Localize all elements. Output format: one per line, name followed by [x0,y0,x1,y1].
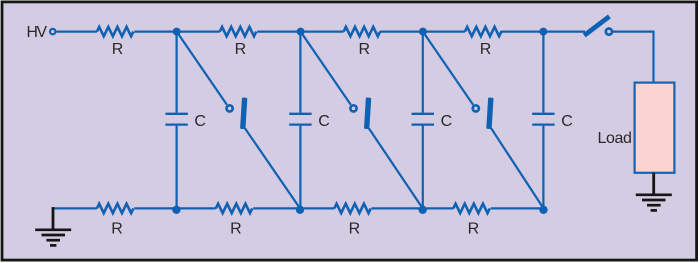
switch S (output) terminal [606,29,612,35]
spark gap 1 electrode bar [240,97,247,129]
spark gap 2 ball terminal [350,105,356,111]
resistor R (bottom stage 2) [216,204,252,213]
resistor R (top stage 4) [465,27,501,36]
wire [177,31,220,33]
node (bottom rail junction) [172,206,180,214]
node (bottom rail junction) [539,206,547,214]
capacitor C (stage 4) [532,114,554,125]
wire [501,31,544,33]
wire (cap branch top, stage 2) [299,32,301,113]
capacitor C (stage 1) [165,114,187,125]
wire [301,31,344,33]
resistor R (top stage 3) [344,27,380,36]
wire [372,207,454,209]
wire (cap branch top, stage 4) [542,32,544,113]
wire [253,207,334,209]
spark gap 3 electrode bar [486,97,493,129]
node (top rail junction) [173,28,181,36]
node (top rail junction) [297,28,305,36]
spark gap 1 lower lead [245,128,300,208]
svg-text:R: R [235,41,246,58]
spark gap 3 upper lead [423,32,473,105]
svg-text:R: R [468,221,479,238]
svg-text:C: C [441,113,453,130]
svg-text:R: R [111,221,122,238]
wire (cap branch top, stage 3) [422,32,424,113]
resistor R (top stage 1) [97,27,133,36]
ground (load) [636,173,672,211]
resistor R (bottom stage 4) [453,204,489,213]
wire [52,207,97,209]
resistor R (bottom stage 3) [334,204,370,213]
svg-text:HV: HV [27,24,48,41]
capacitor C (stage 3) [412,114,434,125]
node (bottom rail junction) [419,206,427,214]
wire (cap branch bottom, stage 2) [299,126,301,209]
spark gap 2 lower lead [369,128,423,208]
node (top rail junction) [419,28,427,36]
spark gap 3 ball terminal [473,105,479,111]
node (top rail junction) [539,28,547,36]
wire [423,31,465,33]
switch S (output) blade [584,16,609,35]
svg-text:C: C [194,113,206,130]
wire [257,31,300,33]
svg-text:R: R [112,41,123,58]
svg-text:Load: Load [598,130,632,147]
wire [491,207,544,209]
wire (cap branch bottom, stage 4) [542,126,544,209]
wire [543,31,585,33]
svg-text:C: C [561,113,573,130]
spark gap 1 ball terminal [227,105,233,111]
wire [134,31,177,33]
svg-text:R: R [480,41,491,58]
spark gap 2 electrode bar [364,97,371,129]
svg-text:R: R [349,221,360,238]
svg-text:C: C [318,113,330,130]
spark gap 3 lower lead [491,128,543,208]
svg-text:R: R [358,41,369,58]
svg-text:R: R [230,221,241,238]
load (resistive load block) [635,83,675,173]
resistor R (top stage 2) [220,27,256,36]
wire (cap branch bottom, stage 3) [422,126,424,209]
wire [134,207,216,209]
wire [56,31,97,33]
wire [380,31,423,33]
wire (cap branch top, stage 1) [176,32,178,113]
capacitor C (stage 2) [289,114,311,125]
ground (bottom rail / HV return) [35,207,71,245]
wire (switch to load corner) [612,32,653,83]
wire (cap branch bottom, stage 1) [176,126,178,209]
resistor R (bottom stage 1) [97,204,133,213]
node (bottom rail junction) [296,206,304,214]
spark gap 1 upper lead [177,32,227,105]
terminal (HV input) [50,29,55,34]
spark gap 2 upper lead [301,32,351,105]
